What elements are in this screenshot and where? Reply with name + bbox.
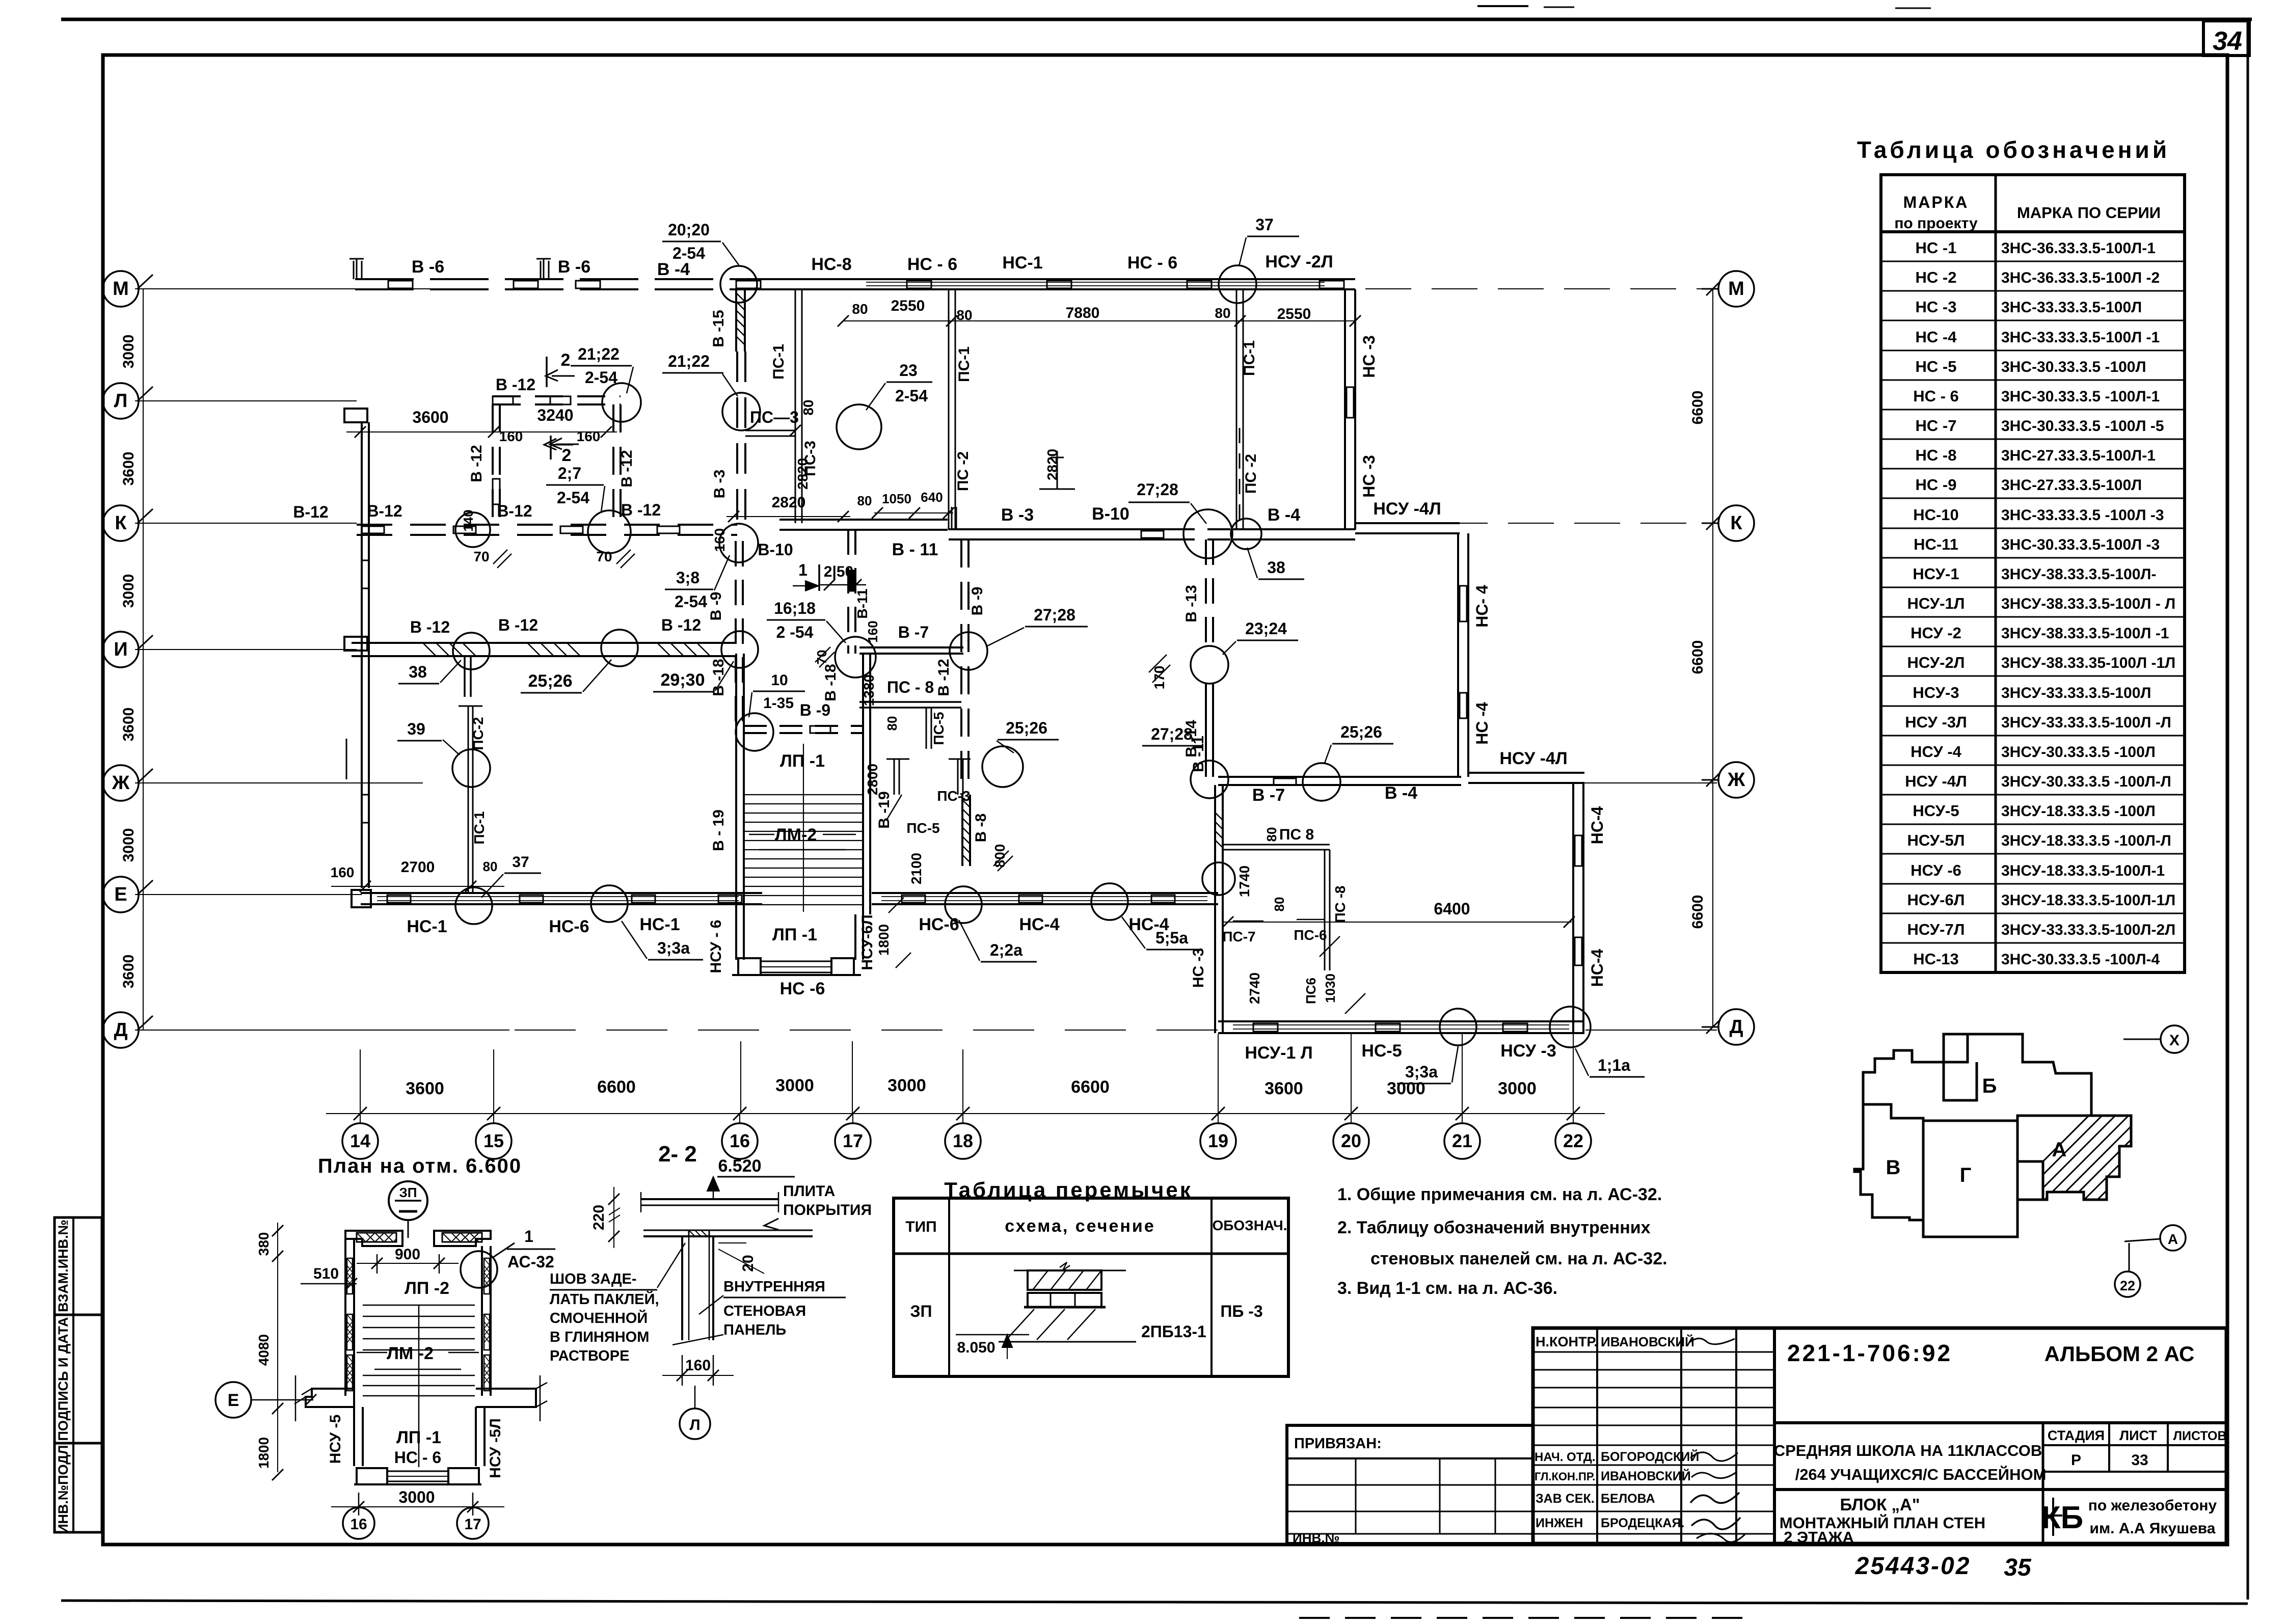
svg-text:3600: 3600 <box>120 452 137 486</box>
svg-text:3НСУ-33.33.3.5-100Л-2Л: 3НСУ-33.33.3.5-100Л-2Л <box>2001 922 2175 938</box>
svg-text:В -3: В -3 <box>711 470 728 499</box>
stair centre stringer <box>418 1305 420 1467</box>
svg-text:ПРИВЯЗАН:: ПРИВЯЗАН: <box>1294 1436 1382 1452</box>
svg-text:НС-11: НС-11 <box>1914 535 1958 553</box>
marka table row line <box>1881 706 2185 707</box>
svg-text:В-12: В-12 <box>367 502 402 520</box>
lower cage right wall <box>475 1407 477 1466</box>
svg-text:22: 22 <box>1563 1130 1583 1151</box>
svg-text:НС -6: НС -6 <box>780 979 825 998</box>
junction circle 2;7 <box>588 510 631 553</box>
svg-text:В -12: В -12 <box>618 450 635 487</box>
svg-text:1800: 1800 <box>876 924 892 956</box>
svg-text:НСУ -3: НСУ -3 <box>1500 1041 1556 1061</box>
svg-text:3000: 3000 <box>1387 1079 1425 1098</box>
svg-text:70: 70 <box>473 549 489 564</box>
svg-text:3НС-27.33.3.5-100Л: 3НС-27.33.3.5-100Л <box>2001 477 2142 494</box>
left landing slab <box>306 1389 354 1407</box>
svg-text:НС - 6: НС - 6 <box>1913 387 1959 405</box>
svg-text:80: 80 <box>1215 305 1230 321</box>
svg-text:В -7: В -7 <box>1252 786 1285 805</box>
marka table row line <box>1881 942 2185 944</box>
svg-text:3НС-30.33.3.5 -100Л: 3НС-30.33.3.5 -100Л <box>2001 359 2146 375</box>
svg-text:ОБОЗНАЧ.: ОБОЗНАЧ. <box>1213 1217 1287 1233</box>
svg-text:3;8: 3;8 <box>676 569 699 587</box>
svg-text:2|50: 2|50 <box>824 563 853 580</box>
B-12 room left dashed wall <box>492 404 494 527</box>
svg-text:3НС-30.33.3.5 -100Л -5: 3НС-30.33.3.5 -100Л -5 <box>2001 418 2164 435</box>
column axis circle 14 <box>342 1123 378 1159</box>
junction circle 27;28 low <box>1191 761 1228 798</box>
svg-text:НСУ -3Л: НСУ -3Л <box>1905 713 1967 731</box>
junction circle 23;24 <box>1191 646 1228 684</box>
svg-text:В-10: В-10 <box>1092 504 1129 524</box>
svg-text:20;20: 20;20 <box>668 221 710 239</box>
svg-text:3. Вид 1-1 см. на л. АС-36.: 3. Вид 1-1 см. на л. АС-36. <box>1337 1279 1557 1298</box>
B-15 hatched wall <box>735 289 737 351</box>
510 dim left <box>301 1283 357 1285</box>
key plan axis A circle <box>2160 1225 2186 1251</box>
svg-text:6600: 6600 <box>597 1077 636 1097</box>
junction circle E col18 <box>945 886 982 923</box>
svg-text:3НСУ-18.33.3.5 -100Л: 3НСУ-18.33.3.5 -100Л <box>2001 803 2156 820</box>
svg-text:АЛЬБОМ 2 АС: АЛЬБОМ 2 АС <box>2044 1342 2195 1366</box>
svg-text:2 -54: 2 -54 <box>776 623 814 641</box>
svg-text:НСУ-6Л: НСУ-6Л <box>859 914 876 970</box>
svg-text:900: 900 <box>395 1246 420 1263</box>
svg-text:2820: 2820 <box>772 494 806 511</box>
svg-text:3;3а: 3;3а <box>657 939 690 957</box>
marka table row line <box>1881 409 2185 411</box>
axis circle Е left <box>103 877 139 912</box>
stair I-row B-9 dashed <box>744 725 863 727</box>
svg-text:ИВАНОВСКИЙ: ИВАНОВСКИЙ <box>1601 1334 1694 1349</box>
left wall B-11 NS-3 <box>1214 785 1216 1033</box>
svg-text:НСУ-1: НСУ-1 <box>1913 565 1959 583</box>
E wall left <box>361 892 762 894</box>
B-12 room top dashed wall <box>493 395 621 397</box>
svg-text:НСУ - 6: НСУ - 6 <box>708 920 724 973</box>
svg-text:20: 20 <box>1341 1130 1361 1151</box>
svg-text:НС -7: НС -7 <box>1916 417 1957 435</box>
svg-text:НС-10: НС-10 <box>1913 506 1959 524</box>
svg-text:ПАНЕЛЬ: ПАНЕЛЬ <box>723 1322 786 1338</box>
svg-text:ПБ -3: ПБ -3 <box>1220 1302 1262 1320</box>
svg-text:6600: 6600 <box>1689 391 1706 425</box>
NS-3 right wall <box>1344 289 1346 530</box>
junction circle D row a <box>1440 1009 1476 1045</box>
svg-text:В -18: В -18 <box>710 659 727 696</box>
marka table row line <box>1881 439 2185 440</box>
svg-text:2: 2 <box>562 446 572 465</box>
axis circle И left <box>103 632 139 667</box>
svg-text:1: 1 <box>798 561 808 579</box>
svg-text:НСУ -2: НСУ -2 <box>1911 624 1961 642</box>
top wall T-marks <box>349 259 364 279</box>
svg-text:НС-13: НС-13 <box>1913 950 1959 968</box>
svg-text:НС -3: НС -3 <box>1360 455 1378 498</box>
K wall left dashed <box>357 524 737 526</box>
svg-text:ЗАВ СЕК.: ЗАВ СЕК. <box>1536 1492 1595 1506</box>
crosshatch joint top-left <box>357 1233 396 1242</box>
marka table row line <box>1881 794 2185 796</box>
svg-text:21;22: 21;22 <box>668 352 710 370</box>
junction circle 23 <box>837 404 881 449</box>
svg-text:ГЛ.КОН.ПР.: ГЛ.КОН.ПР. <box>1535 1470 1595 1483</box>
lower cage left wall <box>353 1407 355 1466</box>
column axis circle 21 <box>1444 1123 1480 1159</box>
svg-text:23: 23 <box>899 361 918 380</box>
svg-text:Л: Л <box>114 390 128 412</box>
svg-text:70: 70 <box>596 549 612 564</box>
svg-text:8.050: 8.050 <box>957 1339 995 1356</box>
svg-text:НС - 6: НС - 6 <box>907 255 957 274</box>
svg-text:5;5а: 5;5а <box>1155 929 1188 947</box>
svg-text:2;2а: 2;2а <box>990 941 1023 959</box>
column axis circle 18 <box>945 1123 981 1159</box>
right vertical dim line <box>1712 289 1713 1027</box>
svg-text:ЛИСТ: ЛИСТ <box>2119 1428 2157 1443</box>
marka table row line <box>1881 468 2185 470</box>
panel hatch mark <box>689 1230 709 1236</box>
svg-text:39: 39 <box>407 720 425 738</box>
panel bottom break <box>672 1335 723 1345</box>
marka table row line <box>1881 498 2185 499</box>
svg-text:ПОДПИСЬ И ДАТА: ПОДПИСЬ И ДАТА <box>56 1317 71 1441</box>
svg-text:РАСТВОРЕ: РАСТВОРЕ <box>550 1348 629 1364</box>
svg-text:3НС-36.33.3.5-100Л-1: 3НС-36.33.3.5-100Л-1 <box>2001 240 2156 257</box>
svg-text:ПС 8: ПС 8 <box>1279 826 1314 843</box>
svg-text:В -19: В -19 <box>876 791 893 828</box>
key plan axis X circle <box>2161 1025 2188 1053</box>
svg-text:16;18: 16;18 <box>774 599 816 617</box>
svg-text:ПС—3: ПС—3 <box>750 408 799 426</box>
PS-1/PS-3 wall A <box>795 289 796 523</box>
svg-text:80: 80 <box>884 716 900 731</box>
right wall hatched joints <box>484 1258 490 1294</box>
privyazan extension box <box>1287 1425 1533 1544</box>
svg-text:КБ: КБ <box>2041 1500 2083 1535</box>
svg-text:НС-1: НС-1 <box>1002 253 1042 273</box>
key plan B block inner step <box>1944 1062 1977 1100</box>
svg-text:2-54: 2-54 <box>585 368 617 387</box>
svg-text:В -4: В -4 <box>657 260 690 279</box>
slab end ticks <box>640 1192 642 1212</box>
svg-text:3000: 3000 <box>775 1076 814 1095</box>
svg-text:ВЗАМ.ИНВ.№: ВЗАМ.ИНВ.№ <box>56 1220 71 1312</box>
svg-text:В - 19: В - 19 <box>710 809 727 851</box>
left attribute strip <box>55 1217 102 1532</box>
svg-text:АС-32: АС-32 <box>507 1253 554 1271</box>
junction circle D row b <box>1550 1007 1591 1047</box>
svg-text:2- 2: 2- 2 <box>658 1142 697 1167</box>
lintel schema drawing <box>1014 1270 1126 1271</box>
title block outer <box>1533 1328 2226 1544</box>
svg-text:НС -4: НС -4 <box>1916 328 1957 346</box>
svg-text:3НСУ-38.33.3.5-100Л - Л: 3НСУ-38.33.3.5-100Л - Л <box>2001 596 2175 612</box>
svg-text:14: 14 <box>350 1130 370 1151</box>
svg-text:ПС-5: ПС-5 <box>906 820 939 836</box>
marka table row line <box>1881 587 2185 588</box>
svg-text:НСУ -2Л: НСУ -2Л <box>1265 252 1333 272</box>
junction circle E 2nd <box>591 885 628 922</box>
junction circle K at B-3 wall <box>719 524 758 562</box>
svg-text:10: 10 <box>771 672 788 689</box>
svg-text:27;28: 27;28 <box>1151 725 1193 743</box>
svg-text:НС-4: НС-4 <box>1588 949 1606 987</box>
column axis circle 17 <box>835 1123 871 1159</box>
svg-text:/264 УЧАЩИХСЯ/С БАССЕЙНОМ: /264 УЧАЩИХСЯ/С БАССЕЙНОМ <box>1795 1465 2047 1483</box>
svg-text:НС -8: НС -8 <box>1916 446 1957 464</box>
svg-text:3НСУ-30.33.3.5 -100Л: 3НСУ-30.33.3.5 -100Л <box>2001 744 2156 761</box>
junction circle left wall <box>1202 862 1235 895</box>
svg-text:НАЧ. ОТД.: НАЧ. ОТД. <box>1535 1450 1596 1464</box>
marka table row line <box>1881 883 2185 885</box>
wall M solid right part <box>734 278 1355 280</box>
marka table row line <box>1881 913 2185 914</box>
svg-text:ЛИСТОВ: ЛИСТОВ <box>2173 1429 2226 1443</box>
svg-text:21: 21 <box>1452 1130 1472 1151</box>
axis circle К right <box>1718 505 1754 541</box>
axis circle Ж right <box>1718 762 1754 798</box>
svg-text:3НС-33.33.3.5-100Л -1: 3НС-33.33.3.5-100Л -1 <box>2001 329 2160 346</box>
svg-text:НС-4: НС-4 <box>1588 806 1606 844</box>
svg-text:ПС-1: ПС-1 <box>956 346 973 382</box>
svg-text:ПС -2: ПС -2 <box>955 451 972 491</box>
junction circle E col15 <box>455 887 492 924</box>
axis circle К left <box>103 505 139 541</box>
lintel table box <box>894 1198 1288 1376</box>
svg-text:СРЕДНЯЯ ШКОЛА НА 11КЛАССОВ: СРЕДНЯЯ ШКОЛА НА 11КЛАССОВ <box>1774 1442 2042 1459</box>
svg-text:ПС-5: ПС-5 <box>931 712 947 745</box>
svg-text:25;26: 25;26 <box>528 671 573 691</box>
B-3 dashed wall <box>736 351 738 523</box>
svg-text:3600: 3600 <box>120 955 137 989</box>
svg-text:ИНВ.№ПОДЛ.: ИНВ.№ПОДЛ. <box>56 1441 71 1534</box>
svg-text:ПС6: ПС6 <box>1303 978 1319 1004</box>
svg-text:3НС-30.33.3.5-100Л -3: 3НС-30.33.3.5-100Л -3 <box>2001 536 2160 553</box>
svg-text:Х: Х <box>2169 1032 2180 1049</box>
left vertical dim line <box>143 289 144 1030</box>
svg-text:ПС-1: ПС-1 <box>1241 340 1258 376</box>
marka table row line <box>1881 528 2185 529</box>
junction circle I col16 <box>721 631 758 668</box>
axis circle Д left <box>103 1012 139 1048</box>
wall panel section <box>681 1236 683 1340</box>
K-row right wall B-3 B-10 <box>949 528 1172 530</box>
svg-text:К: К <box>1730 512 1742 534</box>
svg-text:НСУ -5: НСУ -5 <box>327 1415 344 1464</box>
svg-text:3600: 3600 <box>412 408 448 426</box>
outer right border line <box>2247 19 2249 1600</box>
junction circle K small <box>1231 519 1261 549</box>
svg-text:2: 2 <box>561 350 571 370</box>
svg-text:А: А <box>2052 1139 2067 1161</box>
svg-text:1030: 1030 <box>1323 973 1338 1003</box>
key plan axis 22 circle <box>2115 1271 2140 1297</box>
svg-text:80: 80 <box>956 307 972 323</box>
svg-text:В -8: В -8 <box>973 814 989 843</box>
svg-text:2-54: 2-54 <box>672 244 705 262</box>
svg-text:НС -3: НС -3 <box>1190 948 1207 988</box>
svg-text:ЛМ-2: ЛМ-2 <box>775 825 817 845</box>
svg-text:2ПБ13-1: 2ПБ13-1 <box>1141 1322 1206 1341</box>
title block big divider <box>1773 1328 1776 1544</box>
PS-8 vertical partition <box>1324 850 1326 970</box>
dim 6400 <box>1223 922 1572 923</box>
svg-text:3НС-27.33.3.5-100Л-1: 3НС-27.33.3.5-100Л-1 <box>2001 447 2156 464</box>
svg-text:37: 37 <box>1255 215 1274 234</box>
svg-text:7880: 7880 <box>1066 305 1100 321</box>
svg-text:2700: 2700 <box>401 859 435 876</box>
axis circle Ж left <box>103 765 139 801</box>
svg-text:НС - 6: НС - 6 <box>1127 253 1177 273</box>
svg-text:В -12: В -12 <box>410 618 450 636</box>
svg-text:ПС -2: ПС -2 <box>1243 454 1259 494</box>
marka table row line <box>1881 735 2185 737</box>
svg-text:2550: 2550 <box>1277 306 1311 322</box>
title block signature columns <box>1596 1328 1598 1544</box>
stair top-left wall <box>345 1231 402 1246</box>
junction circle room top <box>602 383 641 422</box>
column axis circle 16 <box>722 1123 758 1159</box>
junction circle B-7 right <box>950 632 987 670</box>
stairwell left wall B-19 <box>735 654 737 914</box>
svg-text:В -12: В -12 <box>621 501 661 519</box>
svg-text:25;26: 25;26 <box>1340 723 1382 741</box>
svg-text:Д: Д <box>1729 1016 1743 1038</box>
svg-text:80: 80 <box>857 493 872 508</box>
B-9 dashed wall K to I <box>735 541 737 726</box>
junction circle M 20;20 <box>720 266 757 303</box>
title block signature rows <box>1533 1351 1774 1353</box>
svg-text:НС-6: НС-6 <box>919 915 959 934</box>
svg-text:Таблица обозначений: Таблица обозначений <box>1857 137 2170 163</box>
svg-text:19: 19 <box>1208 1130 1228 1151</box>
axis circle М left <box>103 271 139 307</box>
svg-text:3;3а: 3;3а <box>1405 1063 1438 1081</box>
svg-text:3НСУ-18.33.3.5 -100Л-Л: 3НСУ-18.33.3.5 -100Л-Л <box>2001 832 2171 849</box>
junction circle PS-2 <box>452 749 490 787</box>
svg-text:16: 16 <box>730 1130 750 1151</box>
B-13 dashed wall <box>1205 539 1207 649</box>
junction circle 21;22 right <box>722 393 760 430</box>
small wall stub below I left <box>464 656 466 697</box>
marka table row line <box>1881 350 2185 351</box>
marka table row line <box>1881 261 2185 262</box>
svg-text:НС-4: НС-4 <box>1019 915 1059 934</box>
L axis circle section <box>680 1409 710 1439</box>
svg-text:по железобетону: по железобетону <box>2088 1497 2217 1514</box>
svg-text:НСУ -6: НСУ -6 <box>1911 861 1961 879</box>
marka table row line <box>1881 824 2185 825</box>
svg-text:В -15: В -15 <box>710 310 727 347</box>
svg-text:1740: 1740 <box>1236 865 1252 897</box>
svg-text:ПС - 8: ПС - 8 <box>887 678 934 696</box>
svg-text:21;22: 21;22 <box>578 345 620 363</box>
svg-text:221-1-706:92: 221-1-706:92 <box>1787 1340 1952 1366</box>
svg-text:80: 80 <box>852 301 868 317</box>
svg-text:1. Общие примечания см. на л.: 1. Общие примечания см. на л. АС-32. <box>1337 1185 1662 1204</box>
svg-text:НС -2: НС -2 <box>1916 268 1957 286</box>
svg-text:В-11: В-11 <box>854 588 870 618</box>
svg-text:Д: Д <box>114 1019 127 1041</box>
svg-text:1800: 1800 <box>256 1437 272 1469</box>
marka table column divider <box>1995 175 1997 972</box>
svg-text:1050: 1050 <box>882 491 911 506</box>
svg-text:3НСУ-38.33.3.5-100Л -1: 3НСУ-38.33.3.5-100Л -1 <box>2001 625 2169 642</box>
svg-text:3240: 3240 <box>537 406 573 424</box>
svg-text:НСУ-1 Л: НСУ-1 Л <box>1245 1043 1312 1063</box>
svg-text:170: 170 <box>1151 666 1167 690</box>
svg-text:510: 510 <box>313 1265 339 1282</box>
svg-text:НС - 6: НС - 6 <box>394 1448 441 1467</box>
top wall panel joints <box>388 281 413 288</box>
stairwell right wall <box>862 654 864 914</box>
svg-text:Е: Е <box>228 1391 239 1410</box>
svg-text:160: 160 <box>331 864 355 880</box>
svg-text:схема, сечение: схема, сечение <box>1005 1216 1155 1236</box>
B-11/B-18 dashed wall col16-17 <box>847 529 849 654</box>
section mark 2 upper <box>546 357 548 387</box>
svg-text:М: М <box>1728 278 1744 300</box>
svg-text:22: 22 <box>2120 1278 2135 1293</box>
svg-text:3000: 3000 <box>1498 1079 1537 1098</box>
svg-text:И: И <box>114 639 127 660</box>
svg-text:ЛАТЬ ПАКЛЕЙ,: ЛАТЬ ПАКЛЕЙ, <box>550 1290 659 1308</box>
svg-text:ЗП: ЗП <box>399 1185 417 1200</box>
svg-text:СТЕНОВАЯ: СТЕНОВАЯ <box>723 1303 806 1319</box>
svg-text:БЕЛОВА: БЕЛОВА <box>1601 1492 1655 1506</box>
svg-text:В -12: В -12 <box>496 375 535 394</box>
E wall right <box>872 892 1218 894</box>
svg-text:ЛП -2: ЛП -2 <box>405 1279 449 1298</box>
svg-text:ШОВ ЗАДЕ-: ШОВ ЗАДЕ- <box>550 1271 637 1287</box>
svg-text:В: В <box>1886 1156 1901 1179</box>
svg-text:3НСУ-33.33.3.5-100Л -Л: 3НСУ-33.33.3.5-100Л -Л <box>2001 714 2171 731</box>
svg-text:НСУ-5Л: НСУ-5Л <box>1907 831 1965 849</box>
svg-text:НС-6: НС-6 <box>549 917 589 936</box>
svg-text:ПС-2: ПС-2 <box>470 717 486 750</box>
marka table row line <box>1881 616 2185 618</box>
svg-text:2800: 2800 <box>865 764 880 795</box>
svg-text:В -11: В -11 <box>1190 736 1207 772</box>
svg-text:ПС-3: ПС-3 <box>937 788 970 804</box>
svg-text:СМОЧЕННОЙ: СМОЧЕННОЙ <box>550 1309 648 1327</box>
svg-text:В - 11: В - 11 <box>892 540 938 559</box>
PS8 horizontal partition <box>1223 844 1330 846</box>
junction circle 25;26 stair <box>982 746 1023 787</box>
NS-4 wall Zh to D <box>1572 783 1574 1033</box>
svg-text:15: 15 <box>483 1130 504 1151</box>
svg-text:ИНЖЕН: ИНЖЕН <box>1536 1516 1583 1530</box>
key plan G block <box>1923 1121 2017 1237</box>
key plan building outline <box>1863 1034 2091 1121</box>
marka table row line <box>1881 380 2185 381</box>
svg-text:ПС-1: ПС-1 <box>471 811 487 844</box>
K wall middle solid <box>779 519 948 521</box>
lower slab lines <box>643 1230 813 1231</box>
svg-text:А: А <box>2168 1231 2178 1247</box>
svg-text:В -9: В -9 <box>800 701 830 719</box>
svg-text:3000: 3000 <box>120 335 137 369</box>
L-row dim line 3600 3240 <box>346 431 617 432</box>
svg-text:25443-02: 25443-02 <box>1855 1553 1971 1580</box>
svg-text:29;30: 29;30 <box>661 670 705 690</box>
svg-text:Р: Р <box>2071 1452 2081 1469</box>
row axis lines <box>135 288 479 289</box>
svg-text:2 ЭТАЖА: 2 ЭТАЖА <box>1784 1528 1854 1546</box>
